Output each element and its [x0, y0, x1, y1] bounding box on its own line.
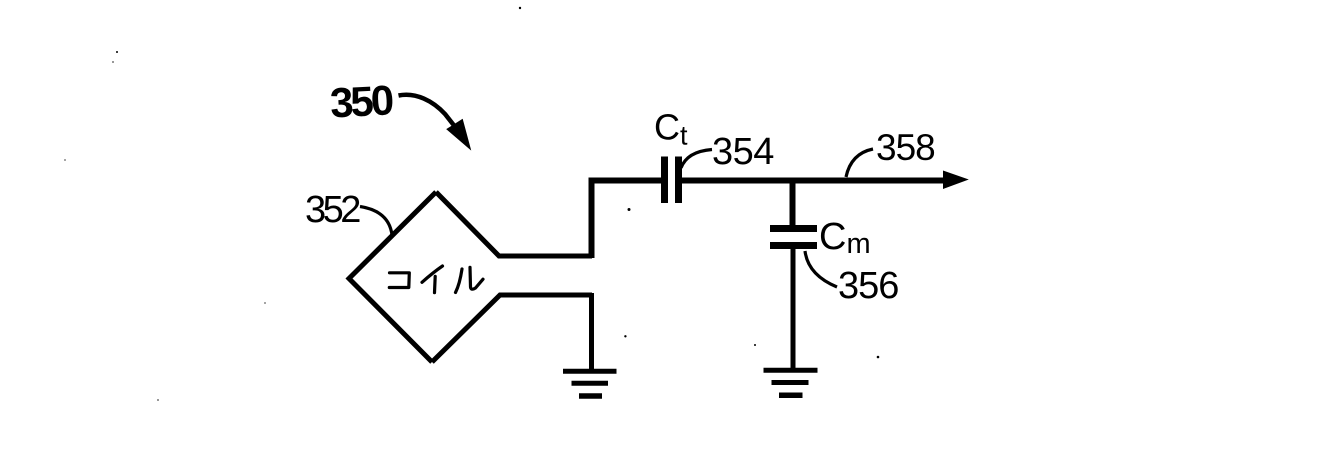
svg-text:Ct: Ct [654, 107, 688, 151]
wire: from Cm down to ground [791, 249, 796, 370]
leader line 352 [360, 207, 392, 236]
wire: junction branch down to Cm [790, 181, 796, 227]
svg-text:356: 356 [838, 265, 898, 307]
leader arrow for 350 [399, 95, 470, 147]
leader line 354 [681, 150, 712, 169]
capacitor Ct plates [665, 157, 679, 204]
svg-text:358: 358 [876, 127, 935, 168]
coil L1 (diamond loop antenna) [349, 192, 592, 362]
leader line 358 [846, 149, 873, 177]
wire: main horizontal line (right of Ct) with output [682, 178, 944, 184]
wire: main horizontal line (left of Ct) [589, 178, 663, 184]
svg-text:354: 354 [712, 131, 774, 173]
output arrowhead (358 line) [943, 171, 969, 190]
capacitor Cm plates [770, 229, 817, 246]
wire: coil bottom lead down to ground [589, 293, 594, 371]
svg-text:Cm: Cm [819, 216, 871, 260]
svg-text:350: 350 [329, 76, 394, 126]
scan specks [64, 7, 879, 401]
coil label コイル [389, 266, 483, 293]
leader line 356 [805, 251, 837, 287]
ground symbol left [563, 371, 617, 396]
svg-text:352: 352 [305, 189, 360, 231]
ground symbol right [764, 370, 818, 395]
wire: vertical riser from coil top lead to main line [589, 178, 595, 258]
